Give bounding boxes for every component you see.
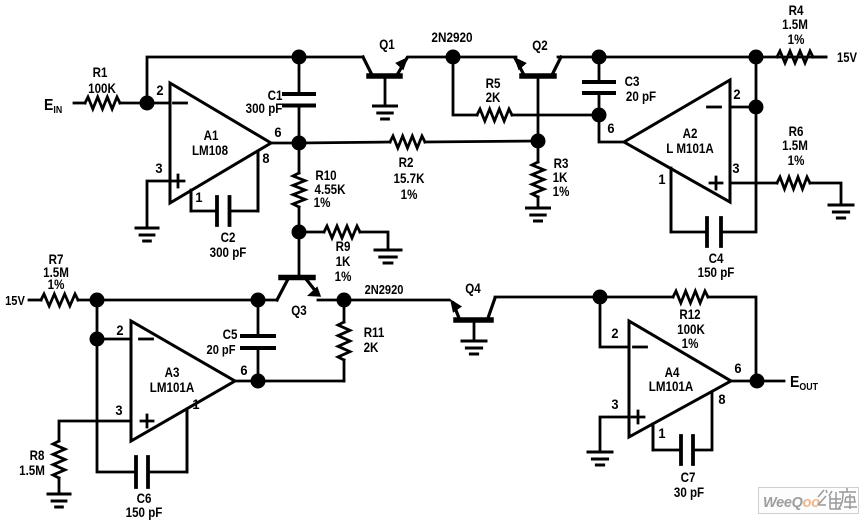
- svg-text:1K: 1K: [336, 253, 352, 269]
- svg-text:300 pF: 300 pF: [210, 244, 247, 260]
- svg-text:6: 6: [240, 363, 247, 379]
- svg-text:LM101A: LM101A: [150, 379, 194, 395]
- svg-text:8: 8: [262, 151, 270, 167]
- svg-text:1.5M: 1.5M: [19, 462, 45, 478]
- svg-text:2: 2: [611, 326, 618, 342]
- svg-text:3: 3: [611, 397, 618, 413]
- svg-text:2N2920: 2N2920: [365, 282, 404, 297]
- svg-text:150 pF: 150 pF: [698, 264, 735, 280]
- svg-text:1: 1: [658, 172, 666, 188]
- svg-text:1%: 1%: [682, 335, 699, 351]
- svg-text:A1: A1: [204, 127, 219, 143]
- svg-text:1%: 1%: [48, 276, 65, 292]
- svg-text:R12: R12: [679, 306, 700, 322]
- svg-text:L M101A: L M101A: [666, 140, 713, 156]
- svg-text:Q1: Q1: [379, 36, 394, 52]
- svg-text:30 pF: 30 pF: [674, 484, 704, 500]
- svg-text:2: 2: [733, 87, 740, 103]
- svg-text:6: 6: [734, 361, 741, 377]
- svg-text:3: 3: [115, 403, 122, 419]
- svg-text:R1: R1: [93, 64, 108, 80]
- svg-text:1%: 1%: [335, 268, 352, 284]
- svg-text:15V: 15V: [5, 293, 26, 308]
- svg-text:1%: 1%: [401, 186, 418, 202]
- svg-text:300 pF: 300 pF: [246, 100, 283, 116]
- svg-text:Q2: Q2: [532, 37, 547, 53]
- svg-text:C3: C3: [625, 73, 640, 89]
- svg-text:20 pF: 20 pF: [207, 342, 236, 357]
- svg-text:3: 3: [155, 161, 162, 177]
- svg-text:1: 1: [192, 397, 200, 413]
- svg-text:15.7K: 15.7K: [394, 170, 426, 186]
- svg-text:R8: R8: [30, 447, 45, 463]
- svg-text:C7: C7: [681, 469, 696, 485]
- svg-text:1: 1: [195, 190, 203, 206]
- svg-text:2: 2: [116, 323, 123, 339]
- svg-text:Q4: Q4: [465, 280, 481, 296]
- svg-text:15V: 15V: [837, 50, 858, 65]
- svg-text:6: 6: [607, 121, 614, 137]
- svg-text:3: 3: [732, 161, 739, 177]
- svg-text:A3: A3: [165, 364, 180, 380]
- svg-text:C2: C2: [221, 229, 236, 245]
- svg-text:A2: A2: [683, 125, 698, 141]
- svg-text:R9: R9: [336, 238, 351, 254]
- svg-text:2: 2: [156, 83, 163, 99]
- svg-text:2K: 2K: [486, 89, 502, 105]
- svg-text:2N2920: 2N2920: [431, 29, 472, 45]
- svg-text:R2: R2: [399, 154, 414, 170]
- svg-text:1%: 1%: [553, 183, 570, 199]
- svg-text:LM101A: LM101A: [649, 378, 693, 394]
- svg-text:20 pF: 20 pF: [626, 88, 656, 104]
- svg-text:R11: R11: [364, 324, 385, 340]
- svg-text:1%: 1%: [788, 31, 805, 47]
- svg-text:C5: C5: [223, 326, 238, 342]
- svg-text:WeeQoo: WeeQoo: [763, 495, 820, 511]
- svg-text:2K: 2K: [364, 339, 380, 355]
- svg-text:Q3: Q3: [291, 302, 306, 318]
- svg-text:1.5M: 1.5M: [782, 137, 808, 153]
- svg-text:1: 1: [658, 426, 666, 442]
- svg-text:6: 6: [274, 125, 281, 141]
- svg-text:100K: 100K: [88, 80, 116, 96]
- svg-text:1.5M: 1.5M: [782, 16, 808, 32]
- svg-text:1%: 1%: [314, 194, 331, 210]
- svg-text:1%: 1%: [788, 152, 805, 168]
- svg-text:LM108: LM108: [192, 142, 228, 158]
- svg-text:8: 8: [718, 392, 726, 408]
- svg-text:150 pF: 150 pF: [126, 504, 163, 520]
